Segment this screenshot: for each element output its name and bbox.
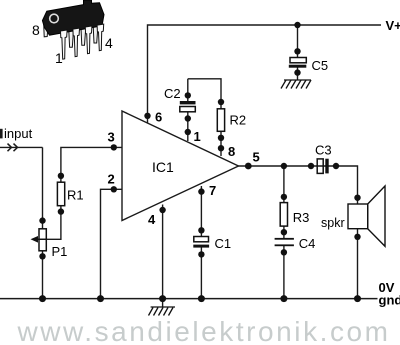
wire C5 drop	[297, 25, 299, 58]
capacitor C4	[275, 236, 316, 256]
svg-text:1: 1	[194, 129, 201, 144]
resistor R3	[280, 194, 309, 236]
capacitor C1	[193, 227, 231, 258]
node pin 7	[198, 188, 204, 194]
wire input to P1 top	[42, 147, 44, 228]
speaker	[321, 186, 385, 246]
front pin 2 of package	[73, 28, 80, 57]
svg-text:www.sandielektronik.com: www.sandielektronik.com	[17, 316, 391, 345]
front pin 3 of package	[85, 26, 92, 54]
svg-text:2: 2	[108, 172, 115, 187]
rail node C4	[280, 295, 287, 302]
package back pin d	[93, 25, 98, 43]
output junction node	[281, 163, 287, 169]
wire pin 2	[101, 189, 123, 298]
wire pin 4 drop	[162, 205, 164, 299]
wire pin 1 riser	[187, 112, 189, 141]
svg-text:IC1: IC1	[152, 159, 174, 175]
node pin 8	[218, 145, 224, 151]
svg-text:C2: C2	[164, 86, 181, 101]
svg-text:R2: R2	[230, 113, 247, 128]
wire C5 to ground	[297, 68, 299, 81]
package notch dimple	[50, 14, 59, 23]
ground symbol at rail	[149, 307, 176, 316]
svg-text:gnd: gnd	[379, 293, 400, 308]
front pin 1 of package	[61, 30, 68, 59]
svg-text:8: 8	[228, 144, 235, 159]
node V+ / C5 tap	[294, 22, 300, 28]
node pin 2	[111, 186, 117, 192]
svg-text:spkr: spkr	[321, 216, 345, 230]
capacitor C2	[164, 86, 196, 122]
rail node pin2	[97, 295, 104, 302]
rail node speaker	[354, 295, 361, 302]
output wire pin 5 to speaker corner	[239, 166, 358, 204]
svg-text:P1: P1	[52, 244, 68, 259]
capacitor C3	[308, 143, 339, 174]
node pin 5 output	[245, 163, 252, 170]
svg-text:C1: C1	[215, 236, 232, 251]
rail node pin4/ground	[159, 295, 166, 302]
rail node C1	[198, 295, 205, 302]
svg-text:4: 4	[148, 212, 156, 227]
svg-text:7: 7	[209, 183, 216, 198]
wire P1 wiper to R1	[34, 206, 61, 240]
svg-text:6: 6	[155, 110, 162, 125]
capacitor C5	[289, 48, 328, 76]
input wire	[0, 146, 43, 148]
wire R2 bottom to pin 8	[220, 131, 222, 156]
wire C2 top to bridge	[187, 79, 189, 101]
rail node P1	[39, 295, 46, 302]
potentiometer P1	[31, 217, 68, 259]
wire bridge C2-R2	[188, 79, 221, 109]
package body	[42, 0, 104, 35]
node pin 4	[159, 207, 165, 213]
node pin 1	[185, 129, 191, 135]
wire R3 to C4	[283, 226, 285, 238]
resistor R2	[217, 99, 246, 141]
ground under C5	[281, 80, 311, 89]
svg-text:input: input	[4, 126, 33, 141]
op-amp IC1	[122, 111, 239, 221]
wire pin 7 drop	[200, 186, 202, 237]
svg-text:R1: R1	[67, 188, 84, 203]
wire C4 to rail	[283, 246, 285, 299]
svg-text:4: 4	[105, 35, 113, 51]
svg-text:5: 5	[253, 150, 260, 165]
wiper arrow	[34, 238, 46, 240]
front pin 4 of package	[97, 24, 104, 51]
resistor R1	[57, 173, 83, 215]
V+ rail	[148, 25, 382, 123]
svg-text:3: 3	[108, 130, 115, 145]
package back pin c	[81, 27, 86, 45]
wire R1 top to pin 3	[61, 147, 122, 182]
package back pin b	[69, 30, 74, 48]
input label	[0, 129, 3, 139]
wire P1 bottom to rail	[42, 251, 44, 299]
IC package DIP-8 illustration	[42, 0, 104, 59]
svg-text:C5: C5	[312, 58, 329, 73]
svg-text:V+: V+	[386, 18, 400, 33]
svg-text:1: 1	[55, 50, 63, 66]
package back pin (8 side)	[44, 20, 49, 37]
node pin 3	[111, 144, 117, 150]
input connector chevrons	[8, 144, 18, 152]
svg-text:R3: R3	[293, 210, 310, 225]
wire C1 bottom to rail	[200, 248, 202, 299]
svg-text:C4: C4	[299, 236, 316, 251]
ground stub at rail	[162, 299, 164, 307]
ground rail 0V	[0, 298, 378, 300]
svg-text:8: 8	[32, 22, 40, 38]
node pin 6	[144, 113, 150, 119]
wire speaker to rail	[357, 229, 359, 299]
svg-text:C3: C3	[315, 143, 332, 158]
wire R3 branch	[283, 166, 285, 203]
